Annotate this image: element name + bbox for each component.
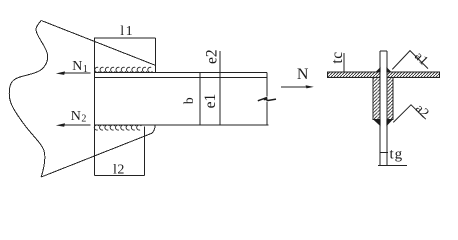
svg-text:N: N xyxy=(297,66,309,83)
svg-text:b: b xyxy=(181,97,196,104)
angle vertical leg left (section, hatched) xyxy=(373,78,380,120)
weld bead W2 (bottom, arcs) xyxy=(94,125,141,130)
weld fillet a2 right xyxy=(386,120,392,127)
bar left end / dimension extension line xyxy=(94,38,96,175)
arrowhead N1 xyxy=(56,71,65,75)
weld fillet a1 right xyxy=(386,67,391,73)
gusset plate break line (wavy left edge) xyxy=(9,21,47,178)
svg-text:tc: tc xyxy=(329,51,346,63)
svg-text:l2: l2 xyxy=(113,162,125,177)
flange plate left half (section, hatched) xyxy=(328,72,381,78)
dimension tg tick xyxy=(380,151,389,153)
dimension l2 line xyxy=(95,127,145,176)
bar outstanding-leg line xyxy=(95,76,267,78)
weld fillet a2 left xyxy=(373,120,380,127)
svg-text:l1: l1 xyxy=(120,24,134,39)
svg-text:e2: e2 xyxy=(203,49,220,64)
svg-text:e1: e1 xyxy=(202,94,219,109)
gusset corner edge (right, top) xyxy=(154,65,156,72)
svg-text:N1: N1 xyxy=(72,59,88,75)
leader a2 xyxy=(393,105,426,123)
svg-text:a1: a1 xyxy=(412,48,432,68)
svg-text:tg: tg xyxy=(390,147,404,163)
force arrow N1 xyxy=(64,72,91,74)
gusset bottom termination line xyxy=(378,165,407,167)
bar bottom edge (weld 2 line) xyxy=(95,124,269,126)
break mark on bar right end xyxy=(258,98,276,101)
dimension b line xyxy=(199,72,201,125)
flange plate right half (section, hatched) xyxy=(387,72,440,78)
arrowhead N xyxy=(306,85,314,88)
weld fillet a1 left xyxy=(375,67,380,73)
force arrow N xyxy=(281,86,307,88)
gusset bottom edge xyxy=(41,125,155,177)
leader a1 xyxy=(392,51,428,70)
break mark notch fill xyxy=(264,97,268,101)
svg-text:N2: N2 xyxy=(71,109,87,125)
bar top edge (weld 1 line) xyxy=(95,71,267,73)
dimension tc tick xyxy=(343,53,345,72)
gusset top edge xyxy=(41,21,155,66)
gusset plate section (vertical, white) xyxy=(380,51,387,166)
arrowhead N2 xyxy=(56,123,65,127)
dimension l1 line xyxy=(94,38,155,65)
svg-text:a2: a2 xyxy=(413,101,433,121)
bar right end with break symbol xyxy=(266,72,268,124)
dimension e1/e2 line xyxy=(219,51,221,125)
weld bead W1 (top, arcs) xyxy=(95,67,153,72)
angle vertical leg right (section, hatched) xyxy=(387,78,393,120)
force arrow N2 xyxy=(64,124,91,126)
